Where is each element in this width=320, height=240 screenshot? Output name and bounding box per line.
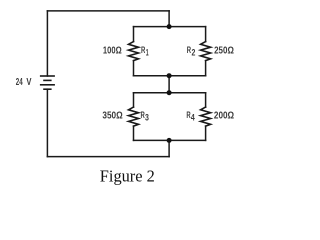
wire top horizontal [47, 10, 169, 12]
wire bottom horizontal [47, 156, 169, 158]
wire bottom box bottom edge [134, 139, 206, 141]
wire bottom box top edge [134, 92, 206, 94]
wire left lower lead from battery [46, 89, 48, 156]
svg-text:2: 2 [192, 47, 196, 57]
node A junction dot [167, 24, 172, 29]
battery V1 plates [40, 76, 55, 89]
wire R3 leads (bottom box left edge) [133, 93, 135, 141]
resistor R1 zigzag [129, 42, 139, 61]
wire R2 leads (top box right edge) [205, 27, 207, 76]
wire left upper lead to battery [46, 11, 48, 76]
wire drop from node D to bottom wire [168, 140, 170, 156]
svg-text:350Ω: 350Ω [102, 111, 122, 122]
wire connector node B to node C [168, 76, 170, 93]
svg-text:4: 4 [191, 113, 195, 123]
wire top box bottom edge [134, 75, 206, 77]
svg-text:3: 3 [145, 113, 149, 123]
wire R4 leads (bottom box right edge) [205, 93, 207, 141]
node C junction dot [167, 90, 172, 95]
svg-text:100Ω: 100Ω [103, 46, 122, 57]
wire top box top edge [134, 26, 206, 28]
resistor R2 zigzag [201, 42, 211, 61]
node B junction dot [167, 73, 172, 78]
svg-text:200Ω: 200Ω [214, 111, 234, 122]
svg-text:24: 24 [16, 77, 23, 88]
wire R1 leads (top box left edge) [133, 27, 135, 76]
svg-text:250Ω: 250Ω [214, 46, 234, 57]
node D junction dot [167, 138, 172, 143]
svg-text:V: V [26, 77, 31, 88]
svg-text:1: 1 [146, 47, 149, 57]
svg-text:Figure 2: Figure 2 [100, 167, 155, 186]
wire drop from top wire to node A [168, 11, 170, 27]
resistor R3 zigzag [129, 107, 139, 126]
resistor R4 zigzag [201, 107, 211, 126]
